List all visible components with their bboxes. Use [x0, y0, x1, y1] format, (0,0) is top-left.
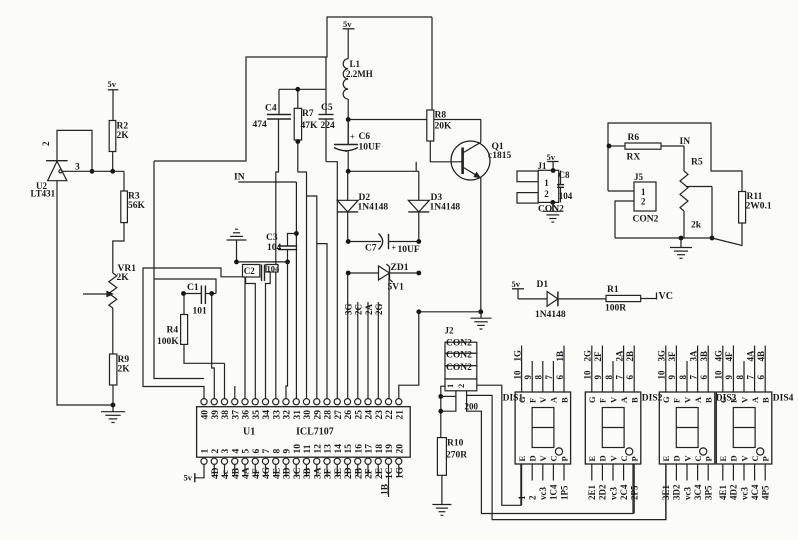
- ground: [432, 505, 451, 516]
- svg-text:7: 7: [614, 375, 624, 380]
- svg-text:4G: 4G: [714, 350, 724, 362]
- svg-text:V: V: [739, 396, 749, 403]
- svg-text:vc3: vc3: [682, 487, 692, 500]
- wire L1 node to R8/collector: [346, 117, 481, 122]
- svg-text:1: 1: [517, 495, 527, 500]
- svg-text:23: 23: [375, 410, 385, 420]
- wire ZD1 cathode to pin 22: [388, 273, 390, 399]
- wire R4 to pin 38: [224, 363, 226, 398]
- U1 pin 18 net 2E: [375, 464, 385, 479]
- svg-text:56K: 56K: [128, 201, 146, 211]
- svg-text:2F: 2F: [593, 351, 603, 362]
- svg-text:5: 5: [242, 449, 252, 454]
- svg-text:LT431: LT431: [31, 189, 56, 199]
- diode D3: [408, 171, 460, 241]
- svg-text:R6: R6: [628, 133, 640, 143]
- svg-text:vc3: vc3: [538, 487, 548, 500]
- wire IN to pin 31: [294, 182, 299, 399]
- svg-text:V: V: [739, 455, 749, 462]
- U1 bottom pin 2: [211, 449, 221, 465]
- display DIS3: [659, 392, 736, 464]
- U1 pin 13 net 3F: [324, 464, 334, 479]
- svg-text:10: 10: [714, 370, 724, 380]
- U1 pin 2 net 4D: [211, 464, 221, 479]
- U1 bottom pin 11: [303, 444, 313, 464]
- svg-text:E: E: [587, 456, 597, 462]
- svg-text:6: 6: [699, 375, 709, 380]
- svg-text:V: V: [608, 455, 618, 462]
- svg-text:7: 7: [262, 449, 272, 454]
- svg-text:R8: R8: [435, 111, 447, 121]
- display DIS2: [585, 392, 662, 464]
- U1 top pin 31: [293, 399, 303, 420]
- display DIS1: [503, 392, 571, 464]
- svg-text:18: 18: [375, 444, 385, 454]
- svg-text:D2: D2: [359, 193, 371, 203]
- svg-text:1N4148: 1N4148: [358, 203, 389, 213]
- U1 top pin 24: [365, 399, 375, 420]
- svg-text:29: 29: [313, 410, 323, 420]
- U1 top pin 21: [395, 399, 405, 420]
- svg-text:A: A: [619, 396, 629, 403]
- U1 top pin 29: [313, 399, 323, 420]
- svg-text:2: 2: [211, 449, 221, 454]
- svg-text:C4: C4: [265, 104, 277, 114]
- svg-text:3D: 3D: [283, 467, 293, 479]
- svg-text:3E: 3E: [334, 468, 344, 479]
- svg-text:2: 2: [41, 141, 51, 146]
- svg-text:8: 8: [678, 375, 688, 380]
- svg-text:D3: D3: [431, 193, 443, 203]
- svg-text:6: 6: [625, 375, 635, 380]
- connector J1 CON2: [517, 161, 564, 215]
- wire to pin 28: [317, 244, 327, 399]
- svg-text:2A: 2A: [614, 350, 624, 362]
- svg-text:9: 9: [523, 375, 533, 380]
- shunt regulator U2 LT431: [31, 141, 68, 199]
- display DIS4: [716, 392, 793, 464]
- wire R7 to pin 30: [298, 172, 307, 399]
- svg-text:3: 3: [221, 449, 231, 454]
- capacitor C5: [319, 89, 336, 161]
- svg-text:2E: 2E: [375, 468, 385, 479]
- svg-text:C2: C2: [244, 266, 255, 276]
- ground: [670, 238, 692, 258]
- svg-text:9: 9: [667, 375, 677, 380]
- svg-text:P: P: [704, 456, 714, 461]
- connector J2: [445, 326, 477, 391]
- wire Q1 emitter: [478, 178, 483, 315]
- svg-text:2: 2: [544, 189, 549, 199]
- U1 top pin 26: [344, 399, 354, 420]
- svg-text:V: V: [538, 455, 548, 462]
- svg-text:R3: R3: [128, 192, 140, 202]
- svg-text:C5: C5: [321, 103, 333, 113]
- wire C6 node to bases: [346, 162, 463, 174]
- svg-text:10UF: 10UF: [359, 143, 381, 153]
- svg-text:4E1: 4E1: [718, 484, 728, 500]
- svg-text:1P5: 1P5: [559, 485, 569, 500]
- net 2A: [364, 302, 374, 399]
- U1 bottom pin 3: [221, 449, 231, 465]
- svg-text:2C4: 2C4: [619, 484, 629, 500]
- power 5v (L1 top): [343, 19, 355, 59]
- svg-text:10: 10: [512, 370, 522, 380]
- svg-text:47K: 47K: [301, 121, 319, 131]
- svg-text:1: 1: [201, 449, 211, 454]
- svg-text:7: 7: [688, 375, 698, 380]
- wire stub pin 37: [234, 386, 236, 399]
- svg-text:D: D: [598, 455, 608, 461]
- U1 bottom pin 9: [283, 449, 293, 465]
- potentiometer VR1: [83, 264, 136, 354]
- capacitor C3: [266, 233, 297, 264]
- svg-text:36: 36: [242, 410, 252, 420]
- ground: [543, 202, 563, 222]
- resistor R9: [110, 354, 131, 405]
- svg-text:B: B: [630, 397, 640, 403]
- svg-text:A: A: [693, 396, 703, 403]
- U1 pin 6 net 4F: [252, 464, 262, 479]
- svg-text:33: 33: [272, 410, 282, 420]
- svg-text:474: 474: [253, 120, 268, 130]
- U1 top pin 27: [334, 399, 344, 420]
- wire U2 anode to ground: [57, 181, 115, 408]
- svg-text:4A: 4A: [242, 467, 252, 479]
- svg-text:8: 8: [272, 449, 282, 454]
- svg-text:F: F: [672, 398, 682, 403]
- svg-text:101: 101: [193, 307, 208, 317]
- svg-text:10UF: 10UF: [398, 245, 420, 255]
- wire bottom (R5/J5/R11): [615, 236, 712, 241]
- wire U2 ref loop: [57, 130, 94, 173]
- svg-text:13: 13: [324, 444, 334, 454]
- resistor R2: [109, 121, 129, 172]
- svg-text:7: 7: [544, 375, 554, 380]
- net IN (input): [234, 173, 296, 183]
- svg-text:D: D: [672, 455, 682, 461]
- IC U1 ICL7107: [197, 407, 411, 458]
- svg-text:8: 8: [534, 375, 544, 380]
- U1 bottom pin 6: [252, 449, 262, 465]
- U1 top pin 40: [201, 399, 211, 420]
- svg-text:14: 14: [334, 444, 344, 454]
- U1 top pin 34: [262, 399, 272, 420]
- U1 bottom pin 14: [334, 444, 344, 465]
- svg-text:1: 1: [445, 384, 455, 388]
- U1 pin 9 net 3D: [283, 464, 293, 479]
- U1 pin 14 net 3E: [334, 464, 344, 479]
- svg-text:B: B: [704, 397, 714, 403]
- resistor R10: [437, 438, 467, 505]
- wire ground to C3: [237, 262, 288, 399]
- svg-text:3F: 3F: [667, 351, 677, 362]
- svg-text:19: 19: [385, 444, 395, 454]
- svg-text:2B: 2B: [625, 351, 635, 362]
- svg-text:104: 104: [267, 243, 282, 253]
- U1 pin 4 net 4B: [231, 464, 241, 479]
- svg-text:3F: 3F: [324, 468, 334, 479]
- svg-text:+: +: [350, 133, 355, 142]
- svg-text:R10: R10: [447, 439, 464, 449]
- resistor R6: [609, 133, 684, 163]
- svg-text:4P5: 4P5: [761, 485, 771, 500]
- svg-text:DIS1: DIS1: [503, 394, 524, 404]
- svg-text:11: 11: [303, 444, 313, 453]
- svg-text:RX: RX: [627, 153, 641, 163]
- capacitor C1: [181, 283, 216, 317]
- svg-text:28: 28: [324, 410, 334, 420]
- DIS3 top pins: [657, 346, 709, 393]
- capacitor C4: [253, 89, 292, 398]
- svg-text:3C4: 3C4: [693, 484, 703, 500]
- svg-text:G: G: [587, 396, 597, 403]
- svg-text:G: G: [718, 396, 728, 403]
- U1 bottom pin 12: [313, 444, 323, 465]
- DIS2 bottom pins: [587, 464, 639, 514]
- svg-text:2P5: 2P5: [630, 485, 640, 500]
- svg-text:ZD1: ZD1: [391, 263, 409, 273]
- svg-text:c1815: c1815: [488, 151, 511, 161]
- power 5v (D1): [512, 279, 548, 299]
- wire C5 to pin 27: [326, 162, 337, 399]
- svg-text:8: 8: [735, 375, 745, 380]
- svg-text:2.2MH: 2.2MH: [346, 69, 373, 79]
- capacitor C2: [243, 263, 281, 281]
- resistor R3: [113, 171, 146, 273]
- svg-text:9: 9: [724, 375, 734, 380]
- resistor R11: [712, 192, 772, 246]
- net 3G: [344, 303, 354, 315]
- diode D2: [337, 171, 388, 241]
- wire left rail: [154, 161, 216, 379]
- svg-text:R11: R11: [747, 192, 763, 202]
- power 5v (R2 top): [108, 79, 119, 121]
- label 200: [465, 402, 479, 412]
- svg-text:C: C: [619, 455, 629, 461]
- svg-text:17: 17: [365, 444, 375, 454]
- svg-text:A: A: [750, 396, 760, 403]
- power 5v (U1 pin 1): [184, 464, 205, 482]
- svg-text:1N4148: 1N4148: [430, 203, 461, 213]
- svg-text:8: 8: [604, 375, 614, 380]
- svg-text:1: 1: [641, 187, 646, 197]
- svg-text:B: B: [559, 397, 569, 403]
- U1 pin 15 net 2D: [344, 464, 354, 479]
- svg-text:1C4: 1C4: [549, 484, 559, 500]
- svg-text:2K: 2K: [117, 273, 130, 283]
- svg-text:40: 40: [201, 410, 211, 420]
- svg-text:V: V: [682, 396, 692, 403]
- svg-text:V: V: [538, 396, 548, 403]
- svg-text:F: F: [528, 398, 538, 403]
- svg-text:vc3: vc3: [608, 487, 618, 500]
- svg-text:R5: R5: [691, 158, 703, 168]
- svg-text:R1: R1: [607, 285, 619, 295]
- svg-text:C8: C8: [559, 170, 570, 180]
- U1 top pin 37: [231, 399, 241, 420]
- U1 top pin 32: [283, 399, 293, 420]
- resistor R1: [605, 285, 657, 314]
- wire C2 to pins: [245, 272, 270, 399]
- svg-text:224: 224: [321, 121, 336, 131]
- svg-text:R4: R4: [167, 326, 179, 336]
- U1 pin 10 net 3C: [293, 464, 303, 479]
- svg-text:C1: C1: [187, 283, 199, 293]
- wire 5v top rail: [154, 17, 432, 161]
- svg-text:C3: C3: [266, 233, 278, 243]
- svg-text:20K: 20K: [435, 122, 453, 132]
- svg-text:R2: R2: [117, 122, 129, 132]
- DIS2 top pins: [583, 346, 635, 393]
- svg-text:3E1: 3E1: [661, 484, 671, 500]
- svg-text:100K: 100K: [157, 337, 179, 347]
- svg-text:4G: 4G: [262, 466, 272, 479]
- svg-text:31: 31: [293, 410, 303, 420]
- svg-text:5v: 5v: [512, 279, 521, 289]
- svg-text:9: 9: [283, 449, 293, 454]
- svg-text:1: 1: [544, 178, 549, 188]
- U1 bottom pin 16: [354, 444, 364, 465]
- wire J2 pin2 to rails: [467, 385, 666, 519]
- U1 top pin 36: [242, 399, 252, 420]
- svg-text:B: B: [761, 397, 771, 403]
- ground: [227, 229, 247, 264]
- svg-text:27: 27: [334, 410, 344, 420]
- svg-text:1N4148: 1N4148: [535, 310, 566, 320]
- svg-text:VC: VC: [659, 291, 673, 302]
- U1 top pin 28: [324, 399, 334, 420]
- svg-text:R9: R9: [118, 355, 130, 365]
- svg-text:P: P: [761, 456, 771, 461]
- inductor L1: [343, 59, 373, 145]
- svg-text:E: E: [517, 456, 527, 462]
- svg-text:U1: U1: [243, 427, 255, 438]
- DIS1 top pins: [512, 346, 564, 393]
- svg-text:16: 16: [354, 444, 364, 454]
- svg-text:6: 6: [252, 449, 262, 454]
- svg-text:10: 10: [583, 370, 593, 380]
- svg-text:C: C: [750, 455, 760, 461]
- svg-text:F: F: [729, 398, 739, 403]
- svg-text:IN: IN: [680, 137, 691, 147]
- diode D1: [535, 280, 606, 320]
- svg-text:P: P: [559, 456, 569, 461]
- svg-text:1B: 1B: [555, 351, 565, 362]
- svg-text:J5: J5: [634, 172, 644, 182]
- svg-text:5v: 5v: [184, 473, 193, 483]
- svg-text:5v: 5v: [343, 19, 352, 29]
- svg-text:2F: 2F: [365, 468, 375, 479]
- svg-text:4B: 4B: [756, 351, 766, 362]
- wire J2 pin1 loop: [438, 386, 456, 437]
- U1 bottom pin 4: [231, 449, 241, 465]
- svg-text:4A: 4A: [745, 350, 755, 362]
- wire D3 column to pin 21: [399, 312, 419, 399]
- svg-text:4: 4: [231, 449, 241, 454]
- svg-text:C7: C7: [365, 244, 377, 254]
- ground: [471, 312, 492, 329]
- U1 top pin 23: [375, 399, 385, 420]
- svg-text:4D2: 4D2: [729, 484, 739, 500]
- svg-text:C: C: [693, 455, 703, 461]
- svg-text:V: V: [682, 455, 692, 462]
- svg-text:2K: 2K: [117, 131, 130, 141]
- svg-text:C6: C6: [359, 132, 371, 142]
- wire C1 to pin 39: [212, 294, 215, 399]
- svg-text:20: 20: [395, 444, 405, 454]
- resistor R8: [427, 17, 463, 162]
- svg-text:4D: 4D: [211, 467, 221, 479]
- node 3: [62, 163, 124, 174]
- ground: [101, 405, 125, 423]
- svg-text:30: 30: [303, 410, 313, 420]
- svg-text:6: 6: [555, 375, 565, 380]
- svg-text:3G: 3G: [344, 303, 354, 315]
- svg-text:P: P: [630, 456, 640, 461]
- svg-text:4F: 4F: [724, 351, 734, 362]
- svg-text:7: 7: [745, 375, 755, 380]
- connector J5 CON2: [608, 172, 659, 238]
- svg-text:2: 2: [528, 495, 538, 500]
- svg-text:IN: IN: [234, 173, 245, 183]
- svg-text:3A: 3A: [313, 467, 323, 479]
- svg-text:2C: 2C: [354, 304, 364, 315]
- svg-text:38: 38: [221, 410, 231, 420]
- svg-text:5v: 5v: [108, 79, 117, 89]
- wire D3 node to emitter: [416, 309, 480, 314]
- svg-text:6: 6: [756, 375, 766, 380]
- U1 bottom pin 15: [344, 444, 354, 465]
- U1 pin 7 net 4G: [262, 464, 272, 479]
- net IN: [680, 137, 691, 147]
- wire R5 wiper down: [710, 187, 715, 241]
- zener ZD1: [346, 263, 421, 293]
- power 5v (J1): [547, 152, 559, 170]
- U1 bottom pin 19: [385, 444, 395, 465]
- svg-text:4c: 4c: [221, 470, 231, 479]
- svg-text:CON2: CON2: [538, 205, 564, 215]
- svg-text:3G: 3G: [657, 350, 667, 362]
- svg-text:D1: D1: [537, 280, 549, 290]
- svg-text:F: F: [598, 398, 608, 403]
- svg-text:25: 25: [354, 410, 364, 420]
- svg-text:35: 35: [252, 410, 262, 420]
- svg-text:CON2: CON2: [633, 215, 659, 225]
- svg-text:2k: 2k: [691, 221, 702, 231]
- svg-text:4C4: 4C4: [750, 484, 760, 500]
- U1 bottom pin 10: [293, 444, 303, 465]
- svg-text:39: 39: [211, 410, 221, 420]
- svg-text:D: D: [528, 455, 538, 461]
- DIS4 bottom pins: [718, 464, 770, 500]
- svg-text:100R: 100R: [605, 304, 626, 314]
- U1 bottom pin 18: [375, 444, 385, 465]
- capacitor C8: [557, 170, 573, 202]
- svg-text:3C: 3C: [293, 467, 303, 479]
- potentiometer R5: [680, 146, 712, 238]
- wire right block top loop: [607, 123, 742, 192]
- U1 pin 5 net 4A: [242, 464, 252, 479]
- svg-text:L1: L1: [350, 59, 361, 69]
- U1 top pin 33: [272, 399, 282, 420]
- net 1B: [381, 483, 391, 495]
- U1 bottom pin 7: [262, 449, 272, 465]
- U1 bottom pin 8: [272, 449, 282, 465]
- svg-text:J2: J2: [445, 326, 455, 336]
- svg-text:9: 9: [593, 375, 603, 380]
- svg-text:2B: 2B: [354, 467, 364, 479]
